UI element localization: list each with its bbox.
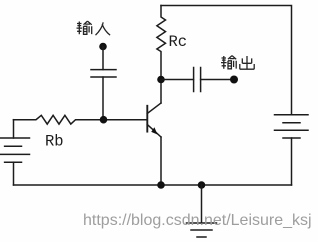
battery B2 (right) bbox=[275, 115, 309, 185]
node collector junction dot bbox=[157, 76, 165, 84]
capacitor C1 (input coupling) bbox=[91, 70, 116, 120]
node ground junction dot bbox=[198, 181, 206, 189]
ground bbox=[187, 223, 217, 237]
label 输出 (output) hand-drawn glyphs bbox=[221, 56, 254, 70]
svg-text:https://blog.csdn.net/Leisure_: https://blog.csdn.net/Leisure_ksj bbox=[83, 212, 312, 229]
node output terminal dot bbox=[230, 76, 238, 84]
wire base node to transistor base bbox=[104, 119, 147, 121]
capacitor C2 (output coupling) bbox=[194, 68, 201, 92]
svg-text:Rc: Rc bbox=[169, 33, 188, 51]
wire bottom rail bbox=[14, 184, 292, 186]
resistor Rb bbox=[14, 115, 105, 124]
label 输入 (input) hand-drawn glyphs bbox=[77, 21, 111, 35]
wire input dot down to capacitor C1 bbox=[102, 47, 104, 70]
svg-text:Rb: Rb bbox=[45, 133, 64, 151]
node base junction dot bbox=[100, 116, 108, 124]
wire ground branch bbox=[201, 185, 203, 223]
wire top rail from Rc top to right battery bbox=[161, 6, 292, 115]
battery B1 (left) bbox=[0, 120, 30, 185]
resistor Rc bbox=[157, 6, 166, 80]
transistor Q1 (NPN) bbox=[147, 80, 161, 186]
wire collector to capacitor C2 bbox=[161, 79, 194, 81]
node emitter junction dot bbox=[157, 181, 165, 189]
wire capacitor C2 to output terminal bbox=[201, 79, 234, 81]
node input terminal dot bbox=[99, 43, 107, 51]
